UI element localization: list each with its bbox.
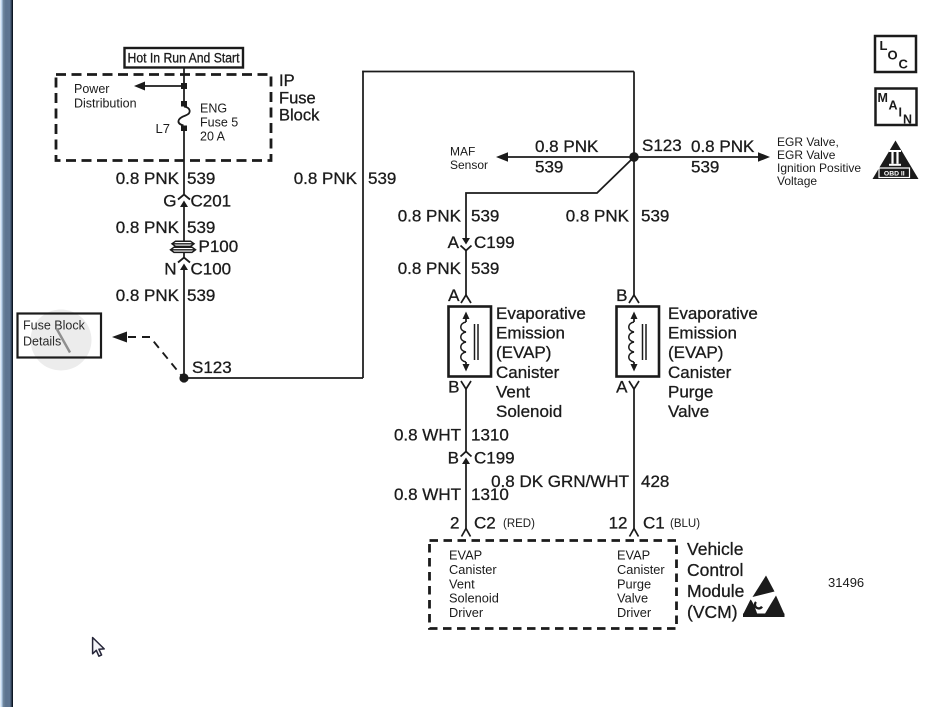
svg-text:C201: C201: [191, 192, 232, 211]
svg-text:C2: C2: [474, 514, 496, 533]
wire C199 to vent solenoid: [465, 251, 467, 296]
svg-text:B: B: [448, 378, 459, 397]
svg-text:Solenoid: Solenoid: [496, 402, 562, 421]
svg-text:A: A: [448, 233, 460, 252]
svg-text:428: 428: [641, 472, 669, 491]
svg-text:0.8 DK GRN/WHT: 0.8 DK GRN/WHT: [491, 472, 629, 491]
mouse cursor: [93, 638, 105, 657]
svg-text:Purge: Purge: [617, 576, 651, 591]
wire S123 jog down to C199: [466, 160, 631, 238]
svg-text:Canister: Canister: [668, 363, 732, 382]
svg-text:Canister: Canister: [449, 562, 497, 577]
label: 0.8 PNK 539 (left drop): [398, 207, 500, 226]
node: power distribution tap: [181, 83, 187, 89]
IP Fuse Block dashed box: [56, 75, 271, 161]
svg-text:0.8 PNK: 0.8 PNK: [535, 137, 599, 156]
svg-text:539: 539: [471, 207, 499, 226]
label: Vehicle Control Module (VCM): [687, 539, 744, 622]
label: Hot In Run And Start box: [125, 48, 244, 68]
svg-text:Driver: Driver: [449, 605, 484, 620]
svg-text:L7: L7: [156, 121, 170, 136]
wire top horizontal run: [362, 71, 634, 73]
dashed arrow from S123 to Fuse Block Details: [112, 332, 181, 376]
label: 0.8 WHT 1310: [394, 426, 509, 445]
svg-text:0.8 PNK: 0.8 PNK: [116, 286, 180, 305]
wire vent solenoid to C199 B: [465, 389, 467, 452]
pin A of vent solenoid: [448, 286, 471, 305]
label: EVAP Canister Vent Solenoid Driver: [449, 548, 499, 621]
svg-text:Hot In Run And Start: Hot In Run And Start: [128, 51, 240, 66]
svg-text:(VCM): (VCM): [687, 602, 738, 622]
wire fuse to C201: [183, 131, 185, 194]
svg-text:0.8 WHT: 0.8 WHT: [394, 426, 461, 445]
svg-text:A: A: [616, 378, 628, 397]
svg-text:Evaporative: Evaporative: [496, 304, 586, 323]
pin B of vent solenoid: [448, 378, 471, 397]
svg-text:N: N: [164, 260, 176, 279]
connector C199 pin B: [448, 449, 515, 468]
svg-text:C1: C1: [643, 514, 665, 533]
label: 0.8 PNK 539 (MAF feed): [535, 137, 599, 177]
pin A of purge valve: [616, 378, 639, 397]
label: EVAP Canister Purge Valve Driver: [617, 548, 665, 621]
svg-text:A: A: [889, 99, 898, 113]
fuse ENG Fuse 5 20 A: [178, 101, 189, 131]
svg-text:Distribution: Distribution: [74, 97, 137, 111]
svg-text:EVAP: EVAP: [449, 548, 482, 563]
svg-text:C199: C199: [474, 449, 515, 468]
svg-text:539: 539: [187, 286, 215, 305]
svg-text:539: 539: [471, 259, 499, 278]
pin B of purge valve: [616, 286, 639, 305]
svg-text:Ignition Positive: Ignition Positive: [777, 161, 861, 175]
svg-text:Valve: Valve: [668, 402, 709, 421]
svg-text:1310: 1310: [471, 426, 509, 445]
label: EGR Valve, EGR Valve Ignition Positive Voltage: [777, 135, 861, 188]
EVAP canister purge valve coil U-right: [617, 307, 660, 377]
svg-text:Canister: Canister: [617, 562, 665, 577]
label: 0.8 PNK 539 (EGR feed): [691, 137, 755, 177]
wire C100 to S123: [183, 270, 185, 378]
splice S123 (right): [629, 136, 682, 162]
svg-text:P100: P100: [199, 237, 239, 256]
svg-text:Vent: Vent: [496, 382, 530, 401]
svg-text:0.8 WHT: 0.8 WHT: [394, 485, 461, 504]
connector C100 pin N: [164, 258, 231, 279]
svg-text:Fuse: Fuse: [279, 90, 316, 108]
label: Evaporative Emission (EVAP) Canister Vent Solenoid: [496, 304, 586, 421]
svg-text:Details: Details: [23, 335, 61, 349]
svg-text:S123: S123: [192, 358, 232, 377]
Fuse Block Details callout: [18, 310, 102, 371]
svg-text:OBD II: OBD II: [884, 170, 905, 177]
svg-text:(RED): (RED): [503, 518, 535, 530]
wire C199 to pin 2: [465, 464, 467, 529]
label: Power Distribution: [74, 82, 137, 111]
svg-text:N: N: [903, 113, 912, 127]
icon: OBD II triangle: [873, 141, 919, 180]
pin 2 connector C2 (RED): [450, 514, 535, 537]
wire from Hot In Run And Start to fuse: [183, 68, 185, 102]
svg-text:Emission: Emission: [668, 324, 737, 343]
svg-text:Fuse Block: Fuse Block: [23, 319, 86, 333]
svg-text:L: L: [880, 38, 888, 53]
icon: MAIN: [876, 89, 917, 127]
label: MAF Sensor: [450, 145, 488, 173]
svg-text:539: 539: [535, 158, 563, 177]
svg-text:Solenoid: Solenoid: [449, 591, 499, 606]
svg-text:2: 2: [450, 514, 459, 533]
svg-text:Voltage: Voltage: [777, 174, 817, 188]
svg-text:C199: C199: [474, 233, 515, 252]
svg-text:Driver: Driver: [617, 605, 652, 620]
svg-text:539: 539: [691, 158, 719, 177]
svg-text:IP: IP: [279, 72, 295, 90]
label: IP Fuse Block: [279, 72, 320, 125]
svg-text:ENG: ENG: [200, 102, 227, 116]
svg-text:M: M: [878, 91, 888, 105]
svg-text:(EVAP): (EVAP): [496, 343, 551, 362]
svg-text:539: 539: [641, 207, 669, 226]
icon: LOC: [875, 36, 916, 72]
arrow to Power Distribution: [134, 82, 184, 91]
svg-text:EGR Valve: EGR Valve: [777, 148, 836, 162]
svg-text:Power: Power: [74, 82, 109, 96]
svg-text:31496: 31496: [828, 575, 864, 590]
svg-text:Vehicle: Vehicle: [687, 539, 743, 559]
connector C199 pin A: [448, 233, 515, 252]
svg-text:EVAP: EVAP: [617, 548, 650, 563]
wire down to splice S123: [633, 72, 635, 158]
svg-text:539: 539: [368, 169, 396, 188]
Vehicle Control Module dashed box: [430, 541, 677, 629]
svg-text:539: 539: [187, 218, 215, 237]
label: 0.8 PNK 539 (right drop): [566, 207, 670, 226]
svg-text:(EVAP): (EVAP): [668, 343, 723, 362]
svg-text:Control: Control: [687, 560, 743, 580]
EVAP canister vent solenoid coil U-left: [449, 307, 492, 377]
svg-text:0.8 PNK: 0.8 PNK: [566, 207, 630, 226]
svg-text:Vent: Vent: [449, 576, 475, 591]
wire S123 down to purge valve: [633, 157, 635, 295]
svg-text:0.8 PNK: 0.8 PNK: [116, 169, 180, 188]
splice S123 (left): [179, 358, 231, 383]
svg-text:Canister: Canister: [496, 363, 560, 382]
wire C201 to P100: [183, 207, 185, 241]
svg-text:0.8 PNK: 0.8 PNK: [691, 137, 755, 156]
svg-text:539: 539: [187, 169, 215, 188]
label: Evaporative Emission (EVAP) Canister Purge Valve: [668, 304, 758, 421]
svg-text:B: B: [448, 449, 459, 468]
ESD sensitive device symbol: [743, 576, 785, 618]
label: 0.8 PNK 539: [116, 169, 216, 188]
svg-text:Purge: Purge: [668, 382, 713, 401]
wire to EGR Valve: [634, 152, 770, 162]
wire to MAF Sensor: [496, 152, 634, 162]
wire purge valve to pin 12: [633, 389, 635, 529]
svg-text:MAF: MAF: [450, 145, 475, 159]
label: 0.8 PNK 539: [116, 218, 216, 237]
svg-text:Fuse 5: Fuse 5: [200, 116, 238, 130]
svg-text:C100: C100: [191, 260, 232, 279]
svg-text:12: 12: [609, 514, 628, 533]
svg-text:Block: Block: [279, 107, 320, 125]
svg-text:G: G: [163, 192, 176, 211]
svg-text:O: O: [888, 48, 898, 63]
svg-text:0.8 PNK: 0.8 PNK: [294, 169, 358, 188]
svg-text:Module: Module: [687, 581, 744, 601]
grommet P100: [171, 237, 239, 256]
svg-text:S123: S123: [642, 136, 682, 155]
svg-text:0.8 PNK: 0.8 PNK: [398, 259, 462, 278]
label: 0.8 PNK 539: [116, 286, 216, 305]
svg-text:EGR Valve,: EGR Valve,: [777, 135, 839, 149]
label: 0.8 WHT 1310: [394, 485, 509, 504]
svg-text:I: I: [899, 106, 902, 120]
label: 0.8 DK GRN/WHT 428: [491, 472, 669, 491]
svg-text:0.8 PNK: 0.8 PNK: [398, 207, 462, 226]
svg-text:Sensor: Sensor: [450, 158, 488, 172]
svg-text:20 A: 20 A: [200, 130, 226, 144]
svg-text:A: A: [448, 286, 460, 305]
wire vertical riser: [362, 71, 364, 378]
pin 12 connector C1 (BLU): [609, 514, 701, 537]
connector C201 pin G: [163, 192, 231, 211]
label: 0.8 PNK 539: [294, 169, 397, 188]
wire S123 horizontal run: [184, 377, 363, 379]
svg-text:B: B: [616, 286, 627, 305]
label: ENG Fuse 5 20 A: [200, 102, 238, 144]
svg-text:Emission: Emission: [496, 324, 565, 343]
svg-text:Evaporative: Evaporative: [668, 304, 758, 323]
label: 0.8 PNK 539: [398, 259, 500, 278]
svg-text:(BLU): (BLU): [670, 518, 700, 530]
svg-text:C: C: [899, 57, 909, 72]
svg-text:0.8 PNK: 0.8 PNK: [116, 218, 180, 237]
svg-text:Valve: Valve: [617, 591, 648, 606]
